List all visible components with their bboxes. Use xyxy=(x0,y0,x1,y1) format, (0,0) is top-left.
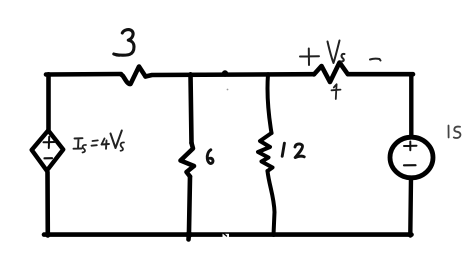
resistor Vs zigzag xyxy=(314,63,348,83)
wire right upper xyxy=(409,74,413,138)
label plus of Vs xyxy=(300,49,319,66)
node junction dot on top wire xyxy=(222,70,228,76)
resistor R1 3ohm zigzag xyxy=(121,67,146,85)
wire top-right segment xyxy=(348,72,413,77)
wire left upper xyxy=(46,74,51,129)
dependent source D1 diamond xyxy=(32,130,64,170)
minus inside diamond xyxy=(45,157,53,159)
plus inside diamond xyxy=(44,137,55,148)
wire right lower xyxy=(408,178,413,236)
resistor R3 12ohm branch wire top xyxy=(267,74,271,133)
junction blob bottom of 6ohm branch xyxy=(186,231,193,238)
resistor R2 6ohm branch wire top xyxy=(191,74,192,143)
wire left lower xyxy=(45,172,50,236)
wire top-middle segment xyxy=(146,74,315,76)
resistor R1 value label 3 xyxy=(114,30,134,56)
stray speck xyxy=(227,89,229,91)
label 12 xyxy=(282,143,304,157)
wire bottom xyxy=(44,232,412,237)
wire top-left segment xyxy=(46,72,121,77)
label Vs xyxy=(328,41,345,64)
label 6 xyxy=(207,150,213,164)
resistor R3 branch wire bottom xyxy=(268,171,275,235)
resistor R2 6ohm squiggle xyxy=(181,143,195,177)
plus inside source xyxy=(404,142,417,151)
minus inside source xyxy=(404,164,416,166)
resistor R3 12ohm squiggle xyxy=(258,133,273,171)
voltage source U1 15V circle xyxy=(390,137,433,178)
label minus of Vs xyxy=(370,59,381,61)
label Is = 4Vs xyxy=(74,138,83,149)
resistor R2 branch wire bottom xyxy=(189,177,191,240)
label 15 xyxy=(449,126,461,139)
plus mark below Vs resistor xyxy=(332,84,341,99)
pen-lift gap in bottom wire xyxy=(223,234,230,238)
